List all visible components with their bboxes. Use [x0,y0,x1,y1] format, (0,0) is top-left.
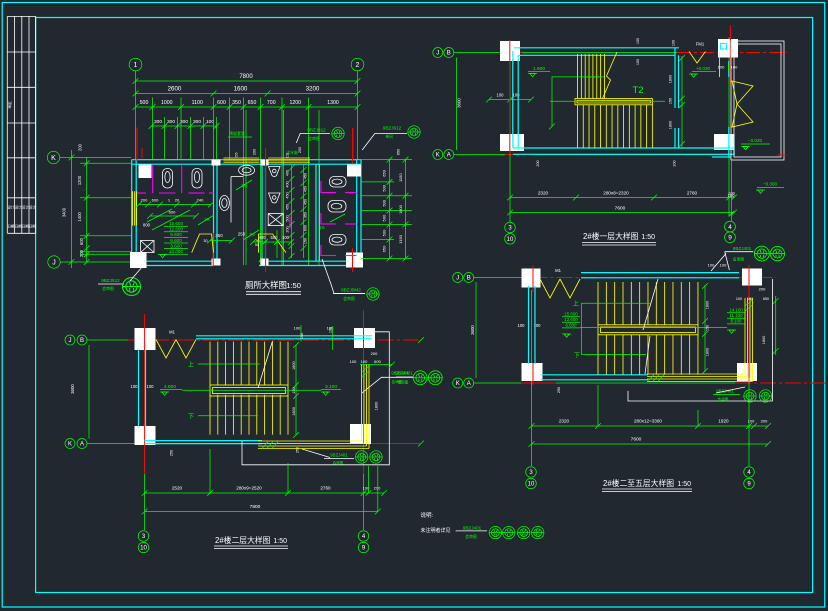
svg-text:设计: 设计 [29,205,36,210]
svg-text:9BZJ512: 9BZJ512 [101,278,120,283]
svg-text:A: A [467,381,471,387]
svg-text:说明:: 说明: [421,511,434,519]
svg-text:详水施: 详水施 [286,150,298,155]
svg-text:1:50: 1:50 [273,538,287,545]
svg-text:单间: 单间 [385,134,393,139]
svg-text:2760: 2760 [687,191,698,196]
svg-text:上: 上 [573,300,579,308]
svg-text:200: 200 [141,198,148,203]
porch outline white double [731,41,784,160]
svg-text:M1: M1 [555,268,561,273]
svg-text:1600: 1600 [234,86,248,93]
svg-text:1200: 1200 [289,100,301,106]
svg-text:3600: 3600 [70,384,75,394]
svg-text:1400: 1400 [77,211,82,221]
svg-text:14.100: 14.100 [729,308,743,313]
break lines white (floors 2-5) [643,279,658,330]
axis bubbles J B (floors 2-5) [453,273,463,283]
svg-text:4: 4 [362,534,366,540]
svg-text:3.100: 3.100 [325,384,337,390]
svg-text:9BZJ401: 9BZJ401 [395,371,413,376]
svg-text:10: 10 [528,482,535,488]
svg-text:200: 200 [759,287,766,292]
svg-text:100: 100 [350,359,357,364]
svg-text:A: A [447,153,451,159]
dims below (second floor) [145,492,384,494]
dims below first floor plan [510,197,734,199]
svg-text:下: 下 [188,414,194,421]
svg-text:3200: 3200 [306,86,320,93]
svg-text:600: 600 [374,359,381,364]
level line across handrail (first floor) [550,100,665,102]
svg-text:会审图: 会审图 [465,534,477,539]
axis lines [454,52,543,54]
red axis line segments [136,128,138,163]
axis bubble J [48,256,60,268]
svg-text:1150: 1150 [398,173,403,182]
svg-text:30: 30 [203,239,207,243]
svg-text:300: 300 [193,119,201,125]
svg-text:8.100: 8.100 [731,319,743,324]
svg-text:400: 400 [286,181,290,187]
svg-text:300: 300 [167,119,175,125]
svg-text:200: 200 [371,351,378,356]
svg-text:1: 1 [168,198,171,203]
stair treads yellow (floors 2-5) [598,282,698,375]
svg-text:150: 150 [304,238,308,244]
svg-text:6.600: 6.600 [170,238,182,243]
svg-text:100: 100 [636,38,640,44]
svg-text:650: 650 [397,149,401,155]
svg-text:150: 150 [706,325,710,331]
walls cyan (first floor) [512,51,514,148]
walls cyan (floors 2-5) [581,272,739,274]
svg-text:3: 3 [529,470,533,476]
axis bubbles 4 9 (first floor) [725,221,736,232]
interior dims right of stairs [681,56,683,148]
squat toilets left room [163,169,173,189]
svg-text:2#楼二层大样图: 2#楼二层大样图 [215,535,271,545]
svg-text:30: 30 [255,239,259,243]
dimension row 7800 [136,80,358,82]
svg-text:1:50: 1:50 [677,481,691,488]
door M1 yellow (second floor) [156,340,176,359]
svg-text:250: 250 [557,387,561,393]
green hatch ends (floors 2-5) [648,375,664,382]
svg-text:9BZJ612: 9BZJ612 [383,126,402,131]
svg-text:200: 200 [298,147,302,153]
svg-text:12.600: 12.600 [169,227,183,232]
svg-text:250: 250 [170,450,174,456]
axis bubbles 4 9 (floors 2-5) [744,467,755,478]
direction arrows green (second floor) [198,363,260,365]
svg-text:C6: C6 [235,153,239,158]
svg-text:9: 9 [747,482,751,488]
svg-text:会审图: 会审图 [343,296,355,301]
svg-text:500: 500 [382,229,387,236]
svg-text:200: 200 [286,226,290,232]
svg-text:150: 150 [292,387,296,393]
svg-text:2: 2 [356,62,360,69]
handrail yellow (floors 2-5) [598,325,698,335]
svg-text:350: 350 [232,100,241,106]
entrance door yellow V [689,52,706,64]
svg-text:2320: 2320 [559,419,570,424]
green vertical dim chain in WC room [291,165,293,258]
svg-text:9: 9 [362,546,366,552]
svg-text:T2: T2 [632,85,643,96]
svg-text:3.600: 3.600 [170,243,182,248]
svg-text:15.600: 15.600 [169,221,183,226]
entrance double door yellow [732,81,753,104]
svg-text:7600: 7600 [615,206,626,212]
svg-text:500: 500 [286,215,290,221]
svg-text:600: 600 [79,237,84,245]
columns white (first floor) [500,41,520,61]
svg-text:200: 200 [536,160,540,166]
svg-text:厕所大样图: 厕所大样图 [245,280,287,290]
svg-text:600: 600 [217,100,226,106]
svg-text:FM1: FM1 [696,42,705,47]
svg-text:650: 650 [763,297,769,301]
svg-text:600: 600 [304,225,308,231]
corner columns white [139,165,152,179]
svg-text:450: 450 [304,173,308,179]
svg-text:A: A [80,442,84,448]
svg-text:11.100: 11.100 [729,313,743,318]
red segment porch bottom [777,154,786,156]
direction arrows green (floors 2-5) [581,302,650,304]
mop sink square [268,214,283,226]
mid room white partition line [230,177,232,223]
svg-text:200: 200 [79,249,84,257]
svg-text:100: 100 [718,65,725,70]
toilet plan walls cyan [132,160,362,266]
svg-text:9BZJ612: 9BZJ612 [307,128,326,133]
svg-text:会审图: 会审图 [102,286,114,291]
axis lines (floors 2-5) [474,277,532,279]
elevation marker arrow [726,72,732,78]
svg-text:2#楼一层大样图: 2#楼一层大样图 [583,231,639,241]
wash basin ovals [239,165,255,175]
axis bubbles 3 10 (first floor) [505,222,516,233]
svg-text:±0.000: ±0.000 [169,249,183,254]
svg-text:150: 150 [300,333,304,339]
svg-text:会审图: 会审图 [333,460,344,465]
svg-text:9BZJ401: 9BZJ401 [463,526,482,531]
svg-text:100: 100 [282,235,290,240]
svg-text:450: 450 [286,192,290,198]
svg-text:上: 上 [188,361,194,369]
red axis verticals (second floor) [144,314,146,474]
axis bubble K [47,151,59,163]
svg-text:日期: 日期 [29,224,36,229]
svg-text:1200: 1200 [77,175,82,185]
svg-text:100: 100 [131,384,139,389]
svg-text:500: 500 [140,100,149,106]
svg-text:1100: 1100 [192,100,203,106]
svg-text:100: 100 [672,40,676,46]
svg-text:9: 9 [728,235,732,242]
svg-text:200: 200 [374,486,381,491]
svg-text:2520: 2520 [172,486,183,491]
svg-text:12.600: 12.600 [564,317,578,322]
svg-text:设计: 设计 [15,205,22,210]
dimension row 300x4 100 [152,125,217,127]
svg-text:4: 4 [747,470,751,476]
svg-text:10: 10 [140,546,147,552]
svg-text:日期: 日期 [15,224,22,229]
svg-text:100: 100 [147,384,155,389]
svg-text:100: 100 [497,93,505,98]
axis bubbles K A (floors 2-5) [453,378,463,388]
svg-text:450: 450 [286,204,290,210]
svg-text:2600: 2600 [168,86,182,93]
svg-text:6.600: 6.600 [566,323,578,328]
columns white (floors 2-5) [522,269,541,288]
svg-text:J: J [69,338,72,344]
interior dims (second floor) [295,345,297,435]
svg-text:1800: 1800 [762,336,766,344]
red axis verticals (floors 2-5) [532,266,534,292]
svg-text:7800: 7800 [250,504,261,510]
svg-text:7800: 7800 [239,74,253,80]
svg-text:100: 100 [708,263,715,268]
svg-text:250: 250 [238,232,246,237]
svg-text:1800: 1800 [292,361,296,369]
svg-text:100: 100 [206,119,214,125]
svg-text:15.600: 15.600 [564,312,578,317]
svg-text:审定: 审定 [7,101,12,109]
svg-text:450: 450 [304,186,308,192]
yellow windows in walls [223,157,259,159]
svg-text:200: 200 [761,419,768,424]
svg-text:−0.020: −0.020 [748,138,763,143]
interior dims (floors 2-5) [704,285,706,372]
leader to first-floor annotation (floors 2-5) [711,254,726,272]
svg-text:3: 3 [508,226,512,232]
landing boundary white (second floor) [242,332,389,465]
svg-text:9.600: 9.600 [170,232,182,237]
svg-text:100: 100 [363,486,370,491]
svg-text:4: 4 [728,224,732,231]
svg-text:J: J [52,260,56,267]
svg-text:B: B [467,276,471,282]
svg-text:9BZJ5M2: 9BZJ5M2 [341,288,361,293]
svg-text:3600: 3600 [457,98,462,108]
axis bubbles K A (second floor) [65,439,75,449]
svg-text:1920: 1920 [718,419,729,424]
stair direction arrow green [552,77,604,127]
svg-text:100: 100 [748,419,755,424]
stair handrail yellow [575,99,652,105]
svg-text:1000: 1000 [398,204,403,214]
columns white (second floor) [135,328,156,350]
svg-text:会审图: 会审图 [718,397,729,402]
axis lines (second floor) [87,339,145,341]
svg-text:350: 350 [304,212,308,218]
svg-text:会审图: 会审图 [308,136,320,141]
axis bubbles 4 9 (second floor) [358,531,369,542]
floor drain square [141,241,155,253]
svg-text:2#楼二至五层大样图: 2#楼二至五层大样图 [603,478,674,488]
walls cyan (second floor) [196,335,372,337]
svg-text:280x9=2520: 280x9=2520 [236,486,262,491]
red axis verticals [509,40,511,154]
small green dim bits bottom [210,240,232,242]
level line across handrail (second floor) [182,389,321,391]
svg-text:100: 100 [518,323,526,328]
svg-text:会审图: 会审图 [733,257,745,262]
svg-text:4.600: 4.600 [164,384,176,390]
axis bubbles 3 10 (second floor) [138,531,149,542]
axis bubbles J B (second floor) [65,335,75,345]
svg-text:300: 300 [154,119,162,125]
svg-text:K: K [51,155,56,162]
axis bubble 1 [129,58,142,71]
svg-text:1:50: 1:50 [286,281,301,290]
svg-text:1800: 1800 [292,407,296,415]
stair treads yellow upper flight (first floor) [578,54,653,148]
svg-text:280x12=3360: 280x12=3360 [634,419,662,424]
axis bubble 2 [351,58,364,71]
svg-text:B: B [447,51,451,57]
svg-text:3: 3 [142,534,146,540]
svg-text:1800: 1800 [669,75,673,83]
svg-text:K: K [456,381,460,387]
stair treads yellow lower flight (first floor) [577,105,579,148]
axis bubbles K A (first floor plan) [433,150,443,160]
svg-text:280x8=2320: 280x8=2320 [603,191,629,196]
left dimension chain [60,157,131,159]
svg-text:800: 800 [143,223,151,228]
svg-text:20: 20 [175,198,180,203]
landing boundary white (floors 2-5) [628,279,772,401]
dims below (floors 2-5) [532,425,769,427]
svg-text:1:50: 1:50 [641,234,655,241]
svg-text:+0.020: +0.020 [696,66,711,71]
svg-text:1: 1 [134,62,138,69]
door M1 yellow (floors 2-5) [540,279,560,298]
svg-text:450: 450 [304,199,308,205]
right axis line down to bubbles [731,160,733,221]
svg-text:500: 500 [382,214,387,221]
svg-text:100: 100 [636,59,640,65]
title block table [7,16,35,233]
balustrade yellow L strip (floors 2-5) [647,298,753,382]
svg-text:650: 650 [248,100,257,106]
stair break line yellow (first floor) [603,52,618,99]
break line white (second floor) [258,341,273,388]
svg-text:下: 下 [574,352,580,359]
interior dimension chains green [139,204,211,206]
interior partition walls cyan [213,164,215,261]
svg-text:100: 100 [513,93,521,98]
svg-text:J: J [456,276,459,282]
svg-text:3600: 3600 [470,325,475,335]
svg-text:50: 50 [255,243,259,247]
svg-text:−0.300: −0.300 [763,182,778,187]
magenta partition mid room [289,217,291,229]
svg-text:500: 500 [382,199,387,206]
svg-text:7600: 7600 [631,437,642,443]
svg-text:100: 100 [720,263,727,268]
svg-text:预留套管: 预留套管 [229,130,245,136]
svg-text:10: 10 [507,237,514,243]
svg-text:150: 150 [669,98,673,104]
svg-text:1.600: 1.600 [533,66,545,72]
svg-text:9BZJ401: 9BZJ401 [733,246,752,251]
svg-text:650: 650 [382,245,387,252]
svg-text:K: K [436,153,440,159]
svg-text:100: 100 [294,326,301,331]
note detail markers [489,526,501,538]
urinals [269,167,281,177]
svg-text:1800: 1800 [706,301,710,309]
svg-text:100: 100 [736,297,742,301]
svg-text:100: 100 [361,359,368,364]
svg-text:9BZJ401: 9BZJ401 [330,453,348,458]
svg-text:100: 100 [728,191,735,196]
right side exterior dim chains [389,160,391,259]
svg-text:1150: 1150 [398,234,403,243]
axis extension lines from bubbles [135,71,137,160]
dimension row 2600 1600 3200 [136,93,358,95]
svg-text:240: 240 [197,198,204,203]
svg-text:350: 350 [215,233,223,238]
svg-text:600: 600 [152,198,159,203]
toilets right room [330,177,347,188]
svg-text:400: 400 [286,170,290,176]
svg-text:B: B [80,338,84,344]
dimension row 500 1000 1100 600 350 650 700 1200 1300 [136,106,358,108]
note leader line [456,530,487,532]
balustrade yellow L strip (second floor) [258,364,369,449]
stair treads yellow (second floor) [210,342,288,435]
svg-text:200: 200 [253,149,257,155]
magenta stall partitions right room [321,192,337,194]
extension lines down to wall [152,98,154,161]
svg-text:2760: 2760 [320,486,331,491]
svg-text:200: 200 [78,143,83,151]
axis bubbles J B (first floor plan) [433,48,443,58]
svg-text:M1: M1 [169,330,175,335]
svg-text:K: K [68,442,72,448]
svg-text:3400: 3400 [62,207,67,217]
yellow ramp outlines at bottom entrance [192,234,214,253]
svg-text:1800: 1800 [706,348,710,356]
svg-text:650: 650 [382,169,387,176]
magenta toilet stall partitions left room [152,165,154,194]
axis bubbles 3 10 (floors 2-5) [526,467,537,478]
svg-text:1000: 1000 [161,100,173,106]
svg-text:1800: 1800 [375,402,379,410]
svg-text:未注明者详见: 未注明者详见 [421,527,451,534]
svg-text:200: 200 [673,160,677,166]
level line across handrail (floors 2-5) [580,327,727,329]
svg-text:700: 700 [267,100,276,106]
svg-text:2320: 2320 [538,191,549,196]
svg-text:1%: 1% [319,225,325,230]
svg-text:1300: 1300 [327,100,339,106]
svg-text:500: 500 [382,184,387,191]
svg-text:1%: 1% [241,183,247,188]
svg-text:250: 250 [296,447,300,453]
green hatch ends [262,442,278,449]
handrail yellow (second floor) [210,385,288,396]
svg-text:1800: 1800 [669,121,673,129]
svg-text:J: J [436,51,439,57]
